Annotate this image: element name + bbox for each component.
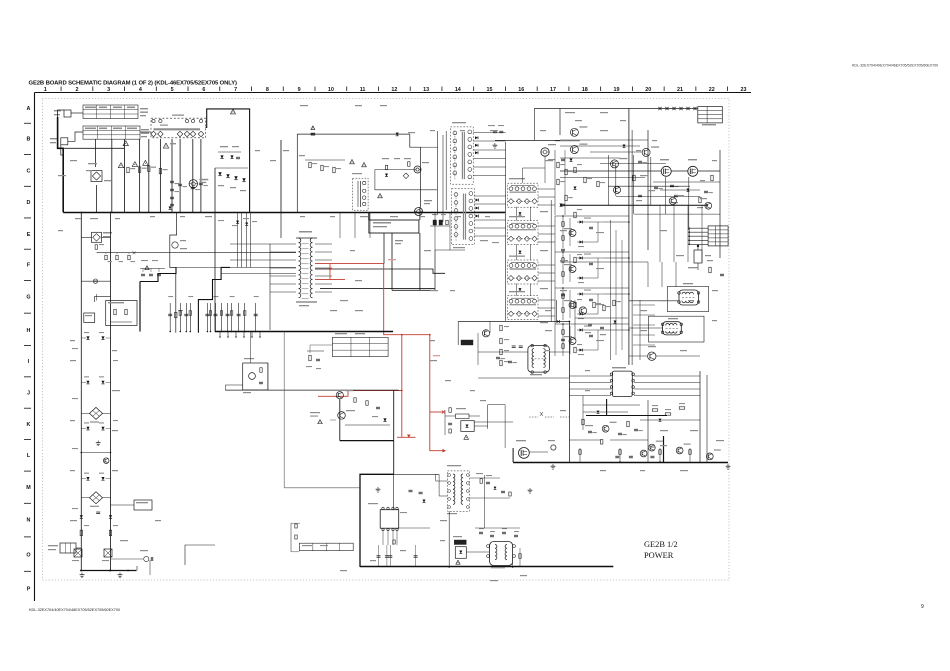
- svg-text:B: B: [27, 137, 31, 143]
- svg-text:10: 10: [328, 87, 334, 93]
- svg-text:E: E: [27, 232, 31, 238]
- svg-text:8: 8: [266, 87, 269, 93]
- svg-text:22: 22: [709, 87, 715, 93]
- svg-text:4: 4: [139, 87, 142, 93]
- svg-text:16: 16: [518, 87, 524, 93]
- svg-text:POWER: POWER: [644, 551, 674, 560]
- svg-text:3: 3: [107, 87, 110, 93]
- svg-text:21: 21: [677, 87, 683, 93]
- svg-text:15: 15: [487, 87, 493, 93]
- svg-text:O: O: [26, 552, 30, 558]
- svg-text:19: 19: [614, 87, 620, 93]
- svg-text:P: P: [27, 586, 31, 592]
- svg-text:1: 1: [44, 87, 47, 93]
- svg-text:20: 20: [645, 87, 651, 93]
- svg-text:K: K: [27, 422, 31, 428]
- svg-text:KDL-32EX704/40EX704/46EX705/52: KDL-32EX704/40EX704/46EX705/52EX705/60EX…: [29, 608, 120, 612]
- svg-text:11: 11: [360, 87, 366, 93]
- svg-text:M: M: [26, 485, 31, 491]
- svg-text:12: 12: [391, 87, 397, 93]
- svg-text:J: J: [27, 391, 30, 397]
- svg-text:KDL-32EX704/40EX704/46EX705/52: KDL-32EX704/40EX704/46EX705/52EX705/60EX…: [852, 64, 938, 68]
- svg-text:7: 7: [234, 87, 237, 93]
- svg-text:G: G: [26, 294, 30, 300]
- svg-text:14: 14: [455, 87, 461, 93]
- svg-text:23: 23: [740, 87, 746, 93]
- svg-text:GE2B BOARD SCHEMATIC DIAGRAM (: GE2B BOARD SCHEMATIC DIAGRAM (1 OF 2) (K…: [29, 81, 238, 87]
- svg-text:18: 18: [582, 87, 588, 93]
- svg-text:C: C: [27, 169, 31, 175]
- svg-text:6: 6: [202, 87, 205, 93]
- svg-text:13: 13: [423, 87, 429, 93]
- svg-text:5: 5: [171, 87, 174, 93]
- svg-text:GE2B 1/2: GE2B 1/2: [644, 540, 678, 549]
- svg-text:9: 9: [298, 87, 301, 93]
- svg-text:17: 17: [550, 87, 556, 93]
- svg-text:2: 2: [75, 87, 78, 93]
- svg-text:D: D: [27, 200, 31, 206]
- svg-text:N: N: [27, 518, 31, 524]
- svg-text:A: A: [27, 106, 31, 112]
- svg-text:9: 9: [921, 604, 924, 610]
- svg-text:H: H: [27, 328, 31, 334]
